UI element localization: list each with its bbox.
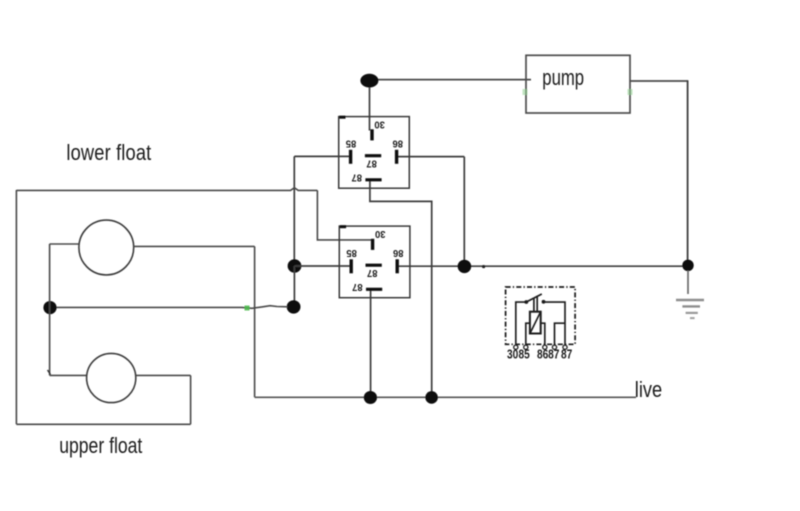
coil terminal 85 lead bbox=[526, 323, 530, 345]
svg-text:87: 87 bbox=[352, 281, 363, 293]
upper float switch circle S2 bbox=[87, 353, 136, 402]
wire: outer bottom horizontal bbox=[16, 423, 190, 425]
wire: pump right to corner bbox=[630, 80, 688, 82]
wire: top junction down to U1 pin 30 bbox=[369, 80, 371, 131]
switch pivot contact dot bbox=[524, 300, 528, 304]
dashed relay outline bbox=[506, 287, 575, 344]
relay U2 bbox=[339, 226, 410, 298]
relay U1 bbox=[339, 117, 410, 189]
svg-text:lower float: lower float bbox=[66, 142, 151, 166]
wire: top-left feed horizontal with hop over x=294 wire bbox=[16, 188, 317, 191]
wire pin87b lead bbox=[544, 302, 566, 345]
wire: upper float left bbox=[50, 374, 87, 376]
wire: U1 pin85 to left bbox=[294, 155, 351, 157]
relay U1 pin 85 bbox=[349, 150, 352, 164]
ground stem bbox=[687, 271, 689, 295]
wire: left float vertical bbox=[49, 244, 51, 376]
wire: pump left (junction to pump box) bbox=[370, 79, 532, 81]
speck artifact right of 86-bus dot bbox=[482, 265, 485, 268]
svg-text:87: 87 bbox=[366, 157, 377, 169]
ground bar 1 bbox=[676, 299, 704, 302]
wire: vertical from U1-86 wire down to node bbox=[463, 157, 465, 266]
relay U2 pin 87a bbox=[366, 288, 382, 291]
relay U1 box bbox=[339, 117, 410, 189]
lower float switch circle S1 bbox=[79, 220, 134, 275]
svg-text:86: 86 bbox=[537, 347, 549, 361]
relay U1 pin 87 bbox=[365, 154, 381, 157]
junction dot on 86 bus bbox=[458, 260, 472, 273]
wire: live rail bottom bbox=[255, 396, 636, 398]
relay U2 corner mark bbox=[340, 225, 346, 228]
svg-text:live: live bbox=[635, 377, 662, 402]
wire: node A to relay U2 pin85 bbox=[295, 265, 352, 267]
wire: relay U1 pin 87a jog down to live rail bbox=[370, 181, 432, 397]
relay U1 pin 30 bbox=[370, 129, 373, 140]
relay U2 pin 87 bbox=[366, 264, 382, 267]
ground bbox=[676, 271, 704, 319]
ground junction dot bbox=[682, 260, 693, 272]
svg-text:85: 85 bbox=[345, 137, 356, 149]
svg-text:86: 86 bbox=[393, 247, 404, 259]
svg-text:87: 87 bbox=[561, 347, 572, 361]
relay U2 pin 86 bbox=[396, 259, 399, 273]
switch fixed contact dot bbox=[542, 300, 546, 304]
relay internal schematic K (dashed) bbox=[506, 287, 575, 362]
ground bar 2 bbox=[682, 305, 700, 307]
svg-text:upper float: upper float bbox=[59, 434, 143, 458]
wire: to lower float switch left bbox=[50, 243, 80, 245]
node A junction dot (85 bus upper) bbox=[288, 259, 302, 272]
tick artifact at upper float corner bbox=[48, 370, 51, 375]
svg-text:85: 85 bbox=[346, 247, 357, 259]
wire: vertical down to live rail bbox=[254, 246, 256, 397]
wire: outer right vertical up to upper float bbox=[190, 375, 192, 424]
relay U2 pin 30 bbox=[371, 239, 374, 250]
svg-text:30: 30 bbox=[374, 118, 385, 130]
relay U2 pin 85 bbox=[350, 259, 353, 273]
relay U1 pin 87a bbox=[365, 178, 381, 181]
svg-text:30: 30 bbox=[507, 347, 518, 361]
wire: upper float right bbox=[136, 374, 191, 376]
node B junction dot (float line) bbox=[287, 300, 301, 313]
artifact green corner right of pump box bbox=[628, 89, 633, 95]
svg-text:85: 85 bbox=[518, 347, 530, 361]
green speck artifact on float wire bbox=[245, 306, 250, 311]
svg-text:30: 30 bbox=[375, 228, 386, 240]
wire: outer left vertical bbox=[15, 190, 17, 424]
wire: relay U2 pin 87a down to live rail bbox=[370, 289, 372, 397]
pin terminal circles bbox=[514, 345, 567, 349]
top junction dot (pump feed) bbox=[360, 74, 378, 88]
svg-text:87: 87 bbox=[367, 267, 378, 279]
wire: node A down to node B bbox=[293, 266, 295, 307]
coil diagonal bbox=[530, 312, 540, 333]
ground bar 4 bbox=[690, 317, 695, 319]
node: live rail junction dot right bbox=[425, 391, 438, 404]
wire: vertical x=294 down to node A bbox=[293, 156, 295, 265]
coil terminal 86 lead bbox=[541, 323, 545, 345]
wire: right vertical down to ground node bbox=[687, 80, 689, 265]
wire: relay U1 pin86 to vertical bbox=[397, 156, 465, 158]
relay U1 pin 86 bbox=[395, 150, 398, 164]
node: float-left junction dot bbox=[43, 301, 56, 314]
node: live rail junction dot left bbox=[364, 391, 377, 404]
switch arm bbox=[526, 294, 542, 302]
pin labels 30 85 86 87 87 bbox=[507, 347, 572, 361]
wire pin30 lead bbox=[516, 302, 527, 345]
svg-text:87: 87 bbox=[351, 171, 362, 183]
wire: jog down to relay U2 pin 30 bbox=[317, 190, 372, 240]
relay U1 corner mark bbox=[339, 116, 345, 119]
wire: lower float right to corner bbox=[134, 245, 255, 247]
wire: float common horizontal to node B (with slight hand wiggle) bbox=[50, 306, 288, 309]
ground bar 3 bbox=[686, 312, 698, 314]
svg-text:86: 86 bbox=[392, 137, 403, 149]
wire: horizontal bus relay pins 86 to ground node bbox=[397, 265, 688, 267]
relay U2 box bbox=[339, 226, 410, 298]
coil rectangle bbox=[530, 312, 541, 334]
pin87 lead (jumper) bbox=[555, 323, 566, 345]
svg-text:87: 87 bbox=[548, 347, 559, 361]
pump box bbox=[526, 55, 630, 113]
artifact green corner left of pump box bbox=[523, 89, 528, 95]
svg-text:pump: pump bbox=[542, 66, 584, 91]
armature link lines bbox=[534, 296, 537, 312]
